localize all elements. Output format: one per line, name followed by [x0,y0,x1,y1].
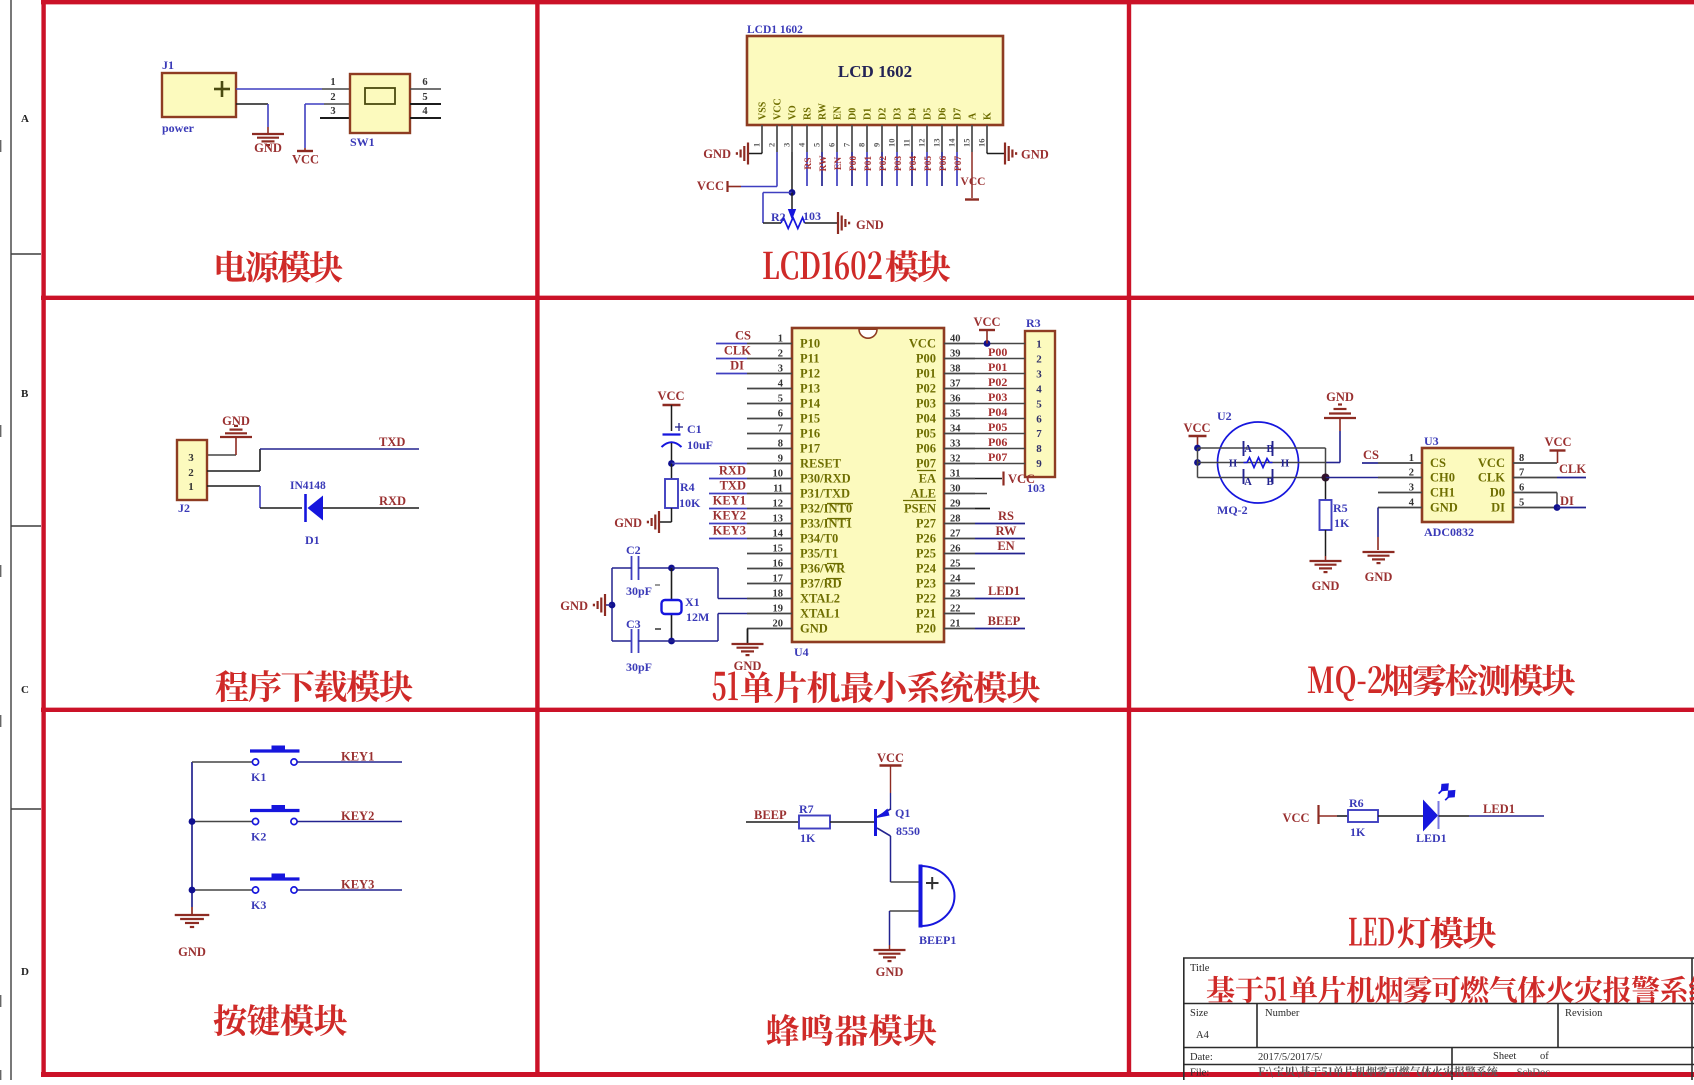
svg-text:6: 6 [1036,413,1042,425]
svg-text:P00: P00 [916,352,936,366]
key K3 cap [250,877,300,880]
wire C1 to junction [671,443,673,464]
svg-text:19: 19 [773,604,784,615]
wire crystal left side [611,568,613,641]
wire VCC to C1 [671,405,673,431]
title block vline size-number [1256,1004,1258,1048]
wire MQ2 bottom electrode row [1198,477,1326,479]
wire J1 pin1 to SW1 pin1 [236,88,322,90]
svg-text:CH0: CH0 [1430,471,1455,485]
svg-text:13: 13 [932,139,942,148]
svg-text:28: 28 [950,514,961,525]
wire keys left vertical [191,762,193,907]
svg-text:GND: GND [856,218,884,232]
wire U4 P03 to R3 [975,403,1025,405]
svg-text:RS: RS [804,157,814,169]
wire U4 VCC pin40 to R3 [975,343,1025,345]
wire J2 pin2 to TXD [207,470,260,472]
svg-text:XTAL2: XTAL2 [800,592,840,606]
svg-text:1: 1 [330,77,335,88]
transistor Q1 emitter arrow [877,809,890,819]
svg-text:VCC: VCC [877,751,904,765]
wire net BEEP [975,628,1025,630]
svg-text:1: 1 [778,334,783,345]
svg-text:P00: P00 [849,156,859,172]
svg-text:LCD 1602: LCD 1602 [838,62,912,81]
wire LCD pin1 to ground [761,152,763,154]
wire J1 pin2 down to GND [267,104,269,127]
svg-text:11: 11 [902,139,912,147]
ground symbol LCD left [747,143,749,165]
MCU U4 right pin line 28 [944,523,975,525]
wire potentiometer to ground [805,222,837,224]
svg-text:RXD: RXD [379,494,406,508]
svg-text:GND: GND [1021,148,1049,162]
MCU U4 left pin line 3 [747,373,792,375]
wire CS to U4 pin1 [716,343,747,345]
svg-text:P06: P06 [939,156,949,172]
svg-text:4: 4 [422,106,428,117]
svg-text:VCC: VCC [657,389,684,403]
svg-text:7: 7 [1519,468,1524,479]
ground symbol R5 [1310,560,1342,562]
svg-text:CLK: CLK [724,344,751,358]
switch SW1 pin line 5 [410,103,441,105]
MCU U4 right pin line 35 [944,418,975,420]
buzzer BEEP1 body [921,866,955,926]
svg-text:P03: P03 [894,156,904,172]
overline WR [827,563,843,565]
wire LCD net P03 [896,152,898,186]
wire junction to XTAL2 pin [672,567,719,569]
svg-text:14: 14 [947,138,957,147]
svg-text:39: 39 [950,349,961,360]
transistor Q1 collector diagonal [877,828,891,836]
svg-text:P13: P13 [800,382,820,396]
svg-text:103: 103 [803,209,821,223]
svg-text:36: 36 [950,394,961,405]
svg-text:5: 5 [812,143,822,147]
connector J1 body [162,73,236,117]
wire CLK to U4 pin2 [716,358,747,360]
junction node VO [789,189,796,196]
MCU U4 left pin line 4 [747,388,792,390]
svg-text:P07: P07 [954,156,964,172]
module title buzzer [766,1014,936,1046]
svg-text:GND: GND [614,516,642,530]
svg-text:P03: P03 [916,397,936,411]
svg-text:23: 23 [950,589,961,600]
svg-text:P16: P16 [800,427,820,441]
svg-text:3: 3 [782,143,792,147]
svg-text:Size: Size [1190,1008,1208,1019]
wire LCD net P04 [911,152,913,186]
svg-text:BEEP1: BEEP1 [919,933,956,947]
ground symbol U4 GND pin [732,643,764,645]
svg-text:U4: U4 [794,645,809,659]
wire J1 pin2 right [236,103,268,105]
svg-text:CLK: CLK [1559,462,1586,476]
svg-text:1: 1 [752,143,762,147]
svg-text:15: 15 [962,139,972,148]
red grid left border [41,0,45,1076]
LED LED1 cathode bar [1438,801,1440,829]
svg-text:P07: P07 [916,457,936,471]
capacitor C1 plus mark [675,426,683,428]
MCU U4 left pin line 12 [747,508,792,510]
svg-text:1K: 1K [1334,516,1350,530]
ground symbol LCD right [1004,143,1006,165]
svg-text:37: 37 [950,379,961,390]
title block line above date row [1183,1047,1694,1049]
wire U4 P06 to R3 [975,448,1025,450]
wire net RS [975,523,1025,525]
ADC U3 left pin line 4 [1378,507,1422,509]
svg-text:P12: P12 [800,367,820,381]
title block file path [1259,1067,1274,1078]
svg-text:P02: P02 [916,382,936,396]
wire DI net right [1557,507,1586,509]
svg-text:8: 8 [778,439,783,450]
svg-text:30pF: 30pF [626,660,652,674]
sheet border inner vertical line [10,0,12,1080]
wire R6 to LED [1378,815,1423,817]
wire junction to R4 [671,464,673,480]
key K1 right contact [291,759,297,765]
svg-text:H: H [1229,459,1237,470]
svg-text:P21: P21 [916,607,936,621]
svg-text:1K: 1K [1350,825,1366,839]
wire SW1 pin2 to VCC [305,103,324,105]
svg-text:VSS: VSS [758,101,769,120]
svg-text:J2: J2 [178,501,190,515]
svg-text:GND: GND [876,965,904,979]
svg-text:GND: GND [178,945,206,959]
LCD1602 pin stub 4 [806,125,808,152]
switch SW1 pin line 2 [324,103,350,105]
svg-text:P14: P14 [800,397,821,411]
svg-text:A: A [1244,477,1252,488]
svg-text:GND: GND [1312,579,1340,593]
title block vline sheet [1451,1048,1453,1081]
junction node XTAL2 [668,565,675,572]
svg-text:KEY2: KEY2 [713,509,746,523]
svg-text:8: 8 [857,143,867,147]
resistor network R3 body [1025,331,1055,477]
ADC U3 right pin line 6 [1513,492,1557,494]
wire R4 to ground [671,508,673,522]
wire LCD net RW [821,152,823,186]
svg-text:6: 6 [1519,483,1524,494]
MCU U4 left pin line 20 [747,628,792,630]
MCU U4 left pin line 1 [747,343,792,345]
MCU U4 right pin line 29 [944,508,975,510]
wire LCD net P02 [881,152,883,186]
svg-text:VO: VO [788,105,799,120]
LCD1602 pin stub 3 [791,125,793,152]
MCU U4 left pin line 7 [747,433,792,435]
ADC U3 right pin line 5 [1513,507,1557,509]
svg-text:D7: D7 [953,108,964,120]
svg-text:1: 1 [1036,339,1042,351]
wire MQ2 heater row [1198,462,1326,464]
MCU U4 left pin line 13 [747,523,792,525]
svg-text:13: 13 [773,514,784,525]
svg-text:3: 3 [1409,483,1414,494]
wire R7 to Q1 base [830,821,874,823]
sensor U2 MQ-2 circle [1218,422,1299,503]
wire MQ2 output to CH0 [1326,477,1379,479]
svg-text:VCC: VCC [773,98,784,120]
svg-text:KEY3: KEY3 [713,524,746,538]
wire K3 left [192,889,253,891]
svg-text:GND: GND [560,599,588,613]
svg-text:C2: C2 [626,543,641,557]
svg-text:Q1: Q1 [895,806,910,820]
svg-text:5: 5 [1036,398,1042,410]
svg-text:DI: DI [1560,494,1574,508]
wire LED to net LED1 [1439,815,1470,817]
key K1 left contact [252,759,258,765]
wire U4 P00 to R3 [975,358,1025,360]
MCU U4 right pin line 21 [944,628,975,630]
wire K1 left [192,761,253,763]
svg-text:26: 26 [950,544,961,555]
svg-text:XTAL1: XTAL1 [800,607,840,621]
MCU U4 left pin line 6 [747,418,792,420]
svg-text:P01: P01 [916,367,936,381]
MCU U4 left pin line 14 [747,538,792,540]
svg-text:9: 9 [1036,458,1042,470]
svg-text:15: 15 [773,544,784,555]
diode D1 triangle [308,496,324,521]
power port VCC LCD pin15 [965,198,979,200]
svg-text:P05: P05 [924,156,934,172]
svg-text:GND: GND [734,659,762,673]
svg-text:P10: P10 [800,337,820,351]
LCD1602 pin stub 15 [971,125,973,152]
junction node RESET [668,460,675,467]
sensor U2 right electrode [1272,441,1274,456]
svg-text:GND: GND [703,147,731,161]
switch SW1 pin line 3 [320,117,350,119]
svg-text:KEY1: KEY1 [341,750,374,764]
svg-text:BEEP: BEEP [754,808,787,822]
svg-text:GND: GND [254,141,282,155]
svg-text:EN: EN [997,539,1014,553]
LCD1602 pin stub 13 [941,125,943,152]
svg-text:2: 2 [1409,468,1414,479]
switch SW1 body [350,74,410,133]
svg-text:16: 16 [773,559,784,570]
overline INT1 [827,518,851,520]
MCU U4 right pin line 27 [944,538,975,540]
junction node MQ2 output [1322,474,1330,482]
svg-text:RW: RW [819,155,829,172]
power port VCC power module [297,150,313,152]
transistor Q1 emitter diagonal [877,809,891,817]
wire net KEY1 to U4 [709,508,747,510]
red grid horizontal divider row2/row3 [41,708,1694,712]
svg-text:P35/T1: P35/T1 [800,547,838,561]
wire net RW [975,538,1025,540]
svg-text:KEY3: KEY3 [341,878,374,892]
MCU U4 left pin line 17 [747,583,792,585]
svg-text:11: 11 [773,484,783,495]
svg-text:D5: D5 [923,108,934,120]
svg-text:A: A [968,112,979,120]
svg-text:D6: D6 [938,108,949,120]
svg-text:DI: DI [1491,501,1505,515]
svg-text:TXD: TXD [720,479,746,493]
svg-text:18: 18 [773,589,784,600]
svg-text:VCC: VCC [973,315,1000,329]
svg-text:R6: R6 [1349,796,1364,810]
wire BEEP to R7 [746,821,799,823]
svg-text:of: of [1540,1051,1549,1062]
sheet title text [1207,976,1263,1003]
ground symbol R4 [658,511,660,533]
title block line under title [1183,1003,1694,1005]
svg-text:1: 1 [1409,453,1414,464]
svg-text:P05: P05 [988,420,1007,434]
svg-text:P05: P05 [916,427,936,441]
MCU U4 right pin line 38 [944,373,975,375]
svg-text:7: 7 [778,424,783,435]
wire LCD net P01 [866,152,868,186]
svg-text:A: A [1244,444,1252,455]
svg-text:RXD: RXD [719,464,746,478]
wire VCC stem power module [304,104,306,148]
wire U4 P02 to R3 [975,388,1025,390]
svg-text:A4: A4 [1196,1030,1210,1041]
junction node crystal ground [609,602,616,609]
svg-text:Number: Number [1265,1008,1300,1019]
svg-text:3: 3 [778,364,783,375]
wire crystal top row [612,567,632,569]
svg-text:P25: P25 [916,547,936,561]
svg-text:D3: D3 [893,108,904,120]
svg-text:EA: EA [919,472,936,486]
title block outer top line [1183,957,1694,959]
svg-text:10K: 10K [679,496,701,510]
wire LCD net P07 [956,152,958,186]
power port VCC pin40 [986,330,988,344]
wire VCC to R6 [1319,815,1338,817]
wire MQ2 top electrode row [1198,447,1326,449]
svg-text:2: 2 [778,349,783,360]
svg-text:K3: K3 [251,898,266,912]
svg-text:D: D [21,966,29,978]
svg-text:32: 32 [950,454,961,465]
svg-text:.SchDoc: .SchDoc [1514,1068,1550,1079]
svg-text:P06: P06 [916,442,936,456]
left edge tick marks [0,140,2,152]
svg-text:K2: K2 [251,830,266,844]
wire LCD net EN [836,152,838,186]
svg-text:B: B [1266,444,1273,455]
svg-text:VCC: VCC [909,337,936,351]
svg-text:P30/RXD: P30/RXD [800,472,851,486]
wire net KEY3 to U4 [709,538,747,540]
MCU U4 right pin line 24 [944,583,975,585]
svg-text:6: 6 [827,143,837,147]
wire buzzer bottom terminal [890,910,919,912]
resistor R6 body [1348,810,1378,822]
svg-text:VCC: VCC [292,153,319,167]
svg-text:38: 38 [950,364,961,375]
wire U4 P01 to R3 [975,373,1025,375]
module title LCD1602 [763,251,881,280]
MCU U4 right pin line 23 [944,598,975,600]
svg-text:C: C [21,684,29,696]
svg-text:16: 16 [977,139,987,148]
svg-text:Title: Title [1190,963,1210,974]
wire Q1 collector down [890,836,892,882]
svg-text:RESET: RESET [800,457,842,471]
MCU U4 left pin line 2 [747,358,792,360]
title block line above file row [1183,1064,1694,1066]
svg-text:File:: File: [1190,1068,1209,1079]
svg-text:12: 12 [773,499,784,510]
svg-text:CH1: CH1 [1430,486,1455,500]
wire net RXD to U4 [709,478,747,480]
wire KEY1 right [297,761,402,763]
power port VCC U3 [1557,451,1559,463]
ADC U3 body [1422,448,1513,522]
svg-text:34: 34 [950,424,961,435]
power port VCC EA [1002,472,1004,486]
svg-text:EN: EN [834,157,844,170]
svg-text:29: 29 [950,499,961,510]
svg-text:2: 2 [330,92,335,103]
switch SW1 pin line 6 [410,88,441,90]
ground symbol keys [175,914,210,916]
svg-text:P24: P24 [916,562,937,576]
ground symbol U3 GND pin [1363,551,1395,553]
svg-text:LED1: LED1 [1416,831,1447,845]
ground symbol above J2 [220,436,252,438]
svg-text:R5: R5 [1333,501,1348,515]
svg-text:KEY2: KEY2 [341,809,374,823]
MCU U4 left pin line 9 [747,463,792,465]
svg-text:Revision: Revision [1565,1008,1603,1019]
junction node XTAL1 [668,638,675,645]
module title 51 MCU minimal system [713,671,738,700]
ADC U3 left pin line 1 [1378,462,1422,464]
resistor R7 body [799,816,830,829]
svg-text:35: 35 [950,409,961,420]
svg-text:Date:: Date: [1190,1052,1213,1063]
MCU U4 right pin line 25 [944,568,975,570]
LCD1602 pin stub 14 [956,125,958,152]
LCD1602 pin stub 10 [896,125,898,152]
key K2 right contact [291,818,297,824]
wire net TXD to U4 [709,493,747,495]
svg-text:H: H [1281,459,1289,470]
junction node DI [1554,504,1561,511]
sensor U2 heater zigzag [1244,458,1273,468]
wire VO loop to potentiometer left [763,192,792,194]
svg-text:P06: P06 [988,435,1007,449]
svg-text:VCC: VCC [1478,456,1505,470]
buzzer plus mark [926,882,939,884]
MCU U4 body [792,328,944,642]
svg-text:D1: D1 [305,533,320,547]
MCU U4 right pin line 30 [944,493,975,495]
svg-text:K1: K1 [251,770,266,784]
key K3 left contact [252,887,258,893]
